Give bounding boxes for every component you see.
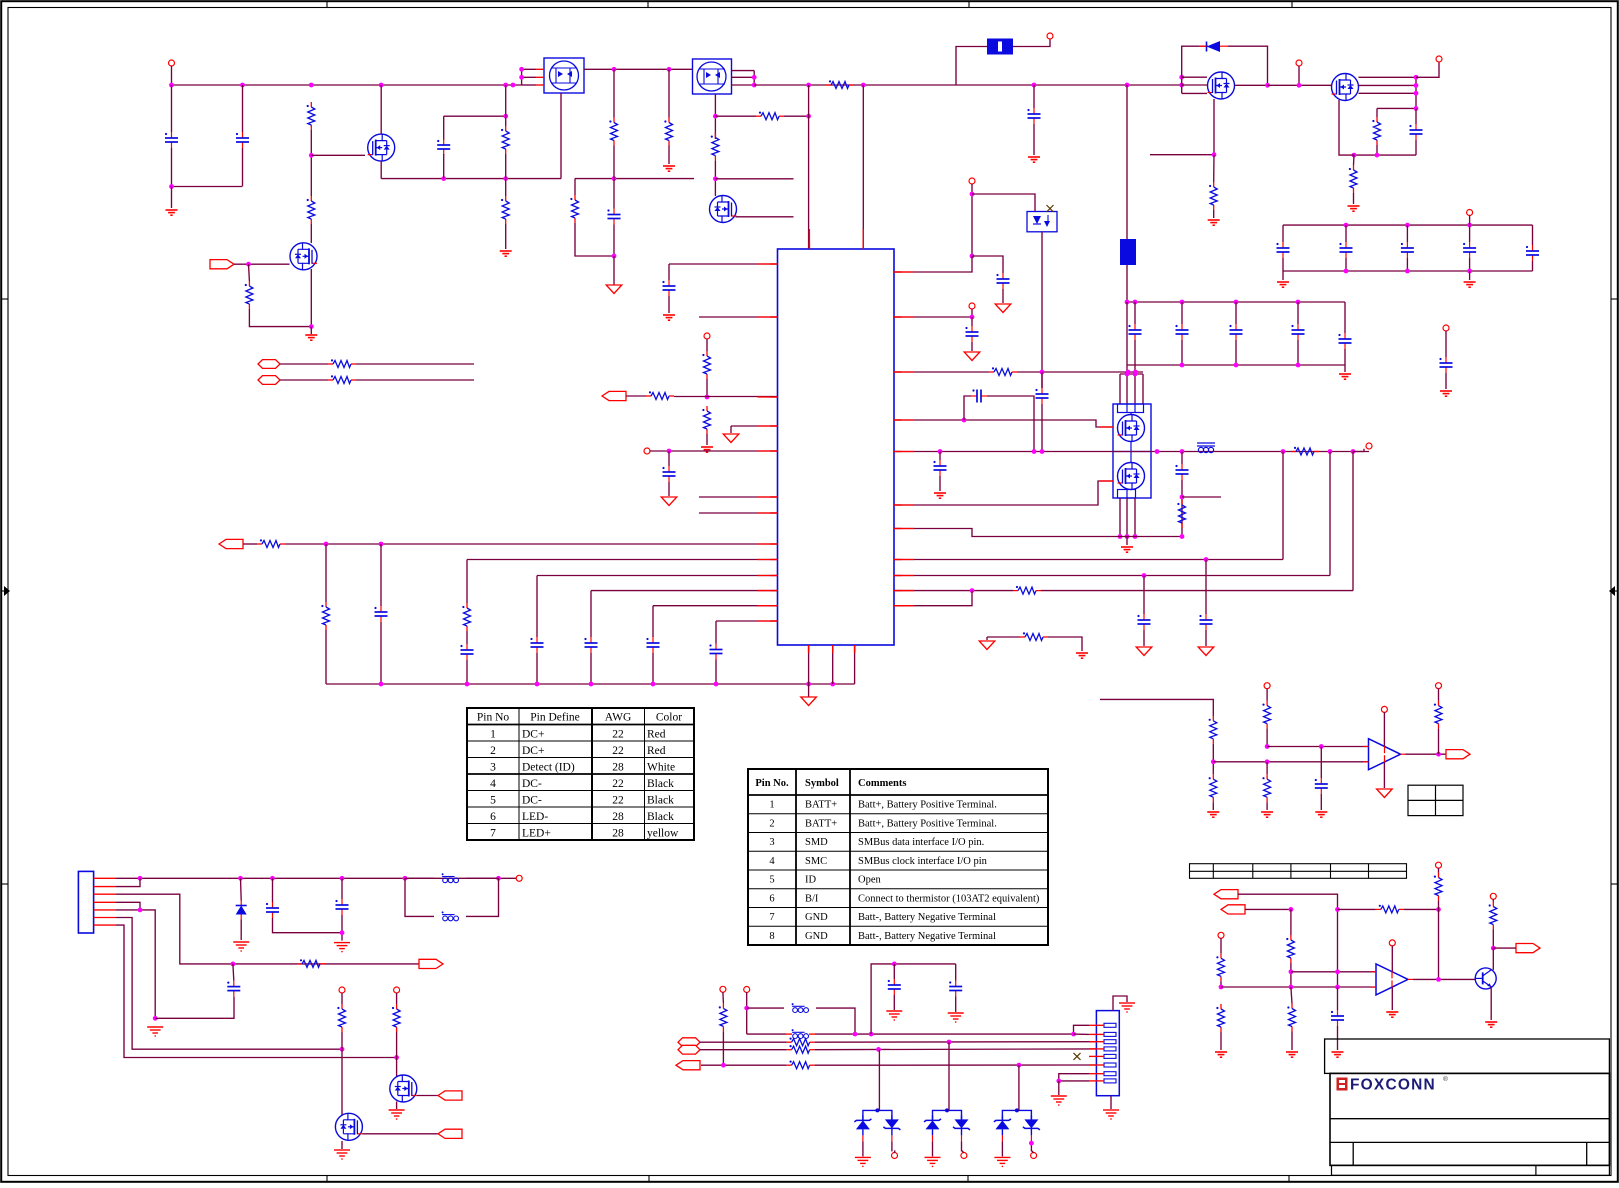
terminal PVCC2	[744, 987, 750, 993]
wire rail box2 to fuse node	[754, 84, 956, 86]
terminal D4T	[961, 1153, 967, 1159]
capacitor C5	[1027, 108, 1040, 124]
wire IC right pin stub	[894, 605, 902, 607]
wire cap C2 lead	[242, 85, 244, 132]
svg-text:ID: ID	[805, 875, 816, 886]
junction	[1414, 91, 1419, 96]
wire capbank2 lead 3	[1297, 302, 1299, 324]
wire box1 pin stub2	[536, 76, 544, 78]
capacitor C21	[1315, 778, 1328, 794]
CON2 pin bar	[1104, 1063, 1116, 1067]
junction	[1414, 106, 1419, 111]
junction	[138, 908, 143, 913]
wire pin4 jog	[116, 902, 140, 910]
wire comp1 feed	[1100, 699, 1213, 716]
junction	[379, 682, 384, 687]
ground	[1208, 220, 1220, 225]
capacitor C20	[1439, 357, 1452, 373]
junction	[1125, 534, 1130, 539]
wire C4 top	[613, 179, 615, 209]
capacitor C25	[227, 981, 240, 997]
resistor R35	[1434, 873, 1442, 901]
wire CON2 pin stub	[1089, 1048, 1104, 1050]
wire pin451L	[650, 450, 778, 452]
ground	[1386, 1012, 1398, 1017]
hex flag SMC	[678, 1038, 700, 1047]
wire M1 gate stub mid	[1182, 84, 1207, 86]
wire R29 bottom	[1212, 744, 1214, 774]
wire M1 gate stubs	[1182, 76, 1207, 78]
diode D2	[236, 901, 247, 920]
wire C17 lead	[1181, 452, 1183, 465]
terminal VREF2	[644, 448, 650, 454]
wire U6 out	[1406, 753, 1447, 755]
junction	[169, 83, 174, 88]
wire C21 gnd	[1320, 794, 1322, 810]
wire capbank1 right2	[1532, 261, 1534, 271]
wire rail to M1 area	[1127, 84, 1182, 86]
ground	[1277, 282, 1289, 287]
wire VBAT stub	[1469, 215, 1471, 225]
wire box2 right stub1	[732, 70, 755, 72]
junction	[1017, 1063, 1022, 1068]
wire R2 to Q2 drain	[310, 224, 312, 243]
wire IC right pin stub	[894, 271, 902, 273]
wire IC left pin stub	[770, 543, 778, 545]
wire capbank2 right2	[1344, 349, 1346, 365]
wire fb riser	[1438, 909, 1440, 978]
wire BATLRN line	[701, 1064, 787, 1066]
wire IC right pin stub red	[894, 605, 914, 607]
resistor R19	[702, 406, 710, 434]
bottom margin zone divider	[326, 1175, 328, 1181]
wire rail to jumper	[1126, 85, 1128, 239]
wire D3b lead	[891, 1141, 893, 1151]
wire R33 bottom	[1438, 729, 1440, 755]
ground	[1261, 812, 1273, 817]
wire CON1 pin stub	[94, 893, 116, 895]
no-connect X	[1047, 205, 1054, 212]
junction	[714, 682, 719, 687]
wire R14 gnd	[1353, 193, 1355, 204]
cable table	[467, 708, 694, 840]
junction	[970, 192, 975, 197]
svg-text:28: 28	[612, 811, 624, 823]
wire IC left pin stub red	[758, 575, 778, 577]
junction	[1265, 759, 1270, 764]
left margin zone divider	[2, 298, 8, 300]
junction	[1212, 152, 1217, 157]
terminal VDDSMB	[1443, 325, 1449, 331]
junction	[713, 176, 718, 181]
junction	[1040, 370, 1045, 375]
wire IC top pin stub red	[862, 229, 864, 249]
wire IC right pin stub	[894, 419, 902, 421]
junction	[869, 1032, 874, 1037]
wire x1127 down	[1126, 302, 1128, 374]
ground arrow	[979, 641, 995, 650]
wire L3 loop	[405, 878, 434, 916]
resistor R36	[1216, 953, 1224, 981]
wire pin559.5 L	[467, 559, 778, 561]
wire capbank2 lead 0	[1134, 302, 1136, 324]
wire D4a gnd	[932, 1141, 934, 1156]
junction rail-box1	[511, 83, 516, 88]
wire bracket	[1120, 373, 1143, 375]
wire CON2 pin stub	[1089, 1073, 1104, 1075]
wire IC left pin stub	[770, 605, 778, 607]
wire C3 bottom	[443, 154, 445, 179]
transistor Q2	[290, 243, 317, 270]
left margin zone divider	[2, 883, 8, 885]
resistor R23	[989, 367, 1017, 375]
wire cap C19 lead	[1205, 560, 1207, 615]
svg-text:5: 5	[490, 795, 496, 807]
wire LEDOUT wire	[1493, 947, 1516, 949]
capacitor CB11	[1339, 242, 1352, 258]
fuse F1	[987, 39, 1013, 55]
junction	[806, 114, 811, 119]
wire R18 left	[645, 396, 647, 398]
wire capbank2 gnd	[1344, 365, 1346, 372]
right margin zone divider	[1611, 590, 1617, 592]
transistor Q3	[710, 196, 737, 223]
resistor R33	[1434, 701, 1442, 729]
wire cap lead2 x653	[652, 653, 654, 684]
CON2 pin bar	[1104, 1072, 1116, 1076]
wire SMC line2	[815, 1041, 1097, 1044]
wire comp1 inm wire	[1213, 761, 1368, 763]
junction	[394, 1055, 399, 1060]
right border centre mark	[1609, 586, 1615, 596]
wire M2 right stub1	[1359, 76, 1417, 78]
diode D1	[1199, 41, 1228, 52]
junction	[1405, 269, 1410, 274]
wire M2 right stub3	[1359, 92, 1417, 94]
svg-text:Batt-, Battery Negative Termin: Batt-, Battery Negative Terminal	[858, 931, 996, 942]
terminal VREF3	[1218, 932, 1224, 938]
revision strip table	[1190, 864, 1407, 879]
junction	[861, 83, 866, 88]
wire C14 top	[1041, 372, 1043, 388]
junction	[1234, 363, 1239, 368]
wire C10 top	[380, 544, 382, 606]
junction	[1351, 449, 1356, 454]
wire C26 gnd	[893, 995, 895, 1010]
svg-text:DC-: DC-	[522, 795, 542, 807]
wire pin528 jog	[894, 529, 1113, 537]
wire pin372	[894, 371, 989, 373]
wire L4 right	[816, 1008, 855, 1034]
svg-text:1: 1	[769, 800, 774, 811]
junction	[465, 682, 470, 687]
wire capbank1 lead2 2	[1406, 258, 1408, 271]
svg-text:GND: GND	[805, 931, 828, 942]
wire comp link	[987, 396, 1034, 452]
wire M2 source	[1339, 100, 1354, 155]
wire DET node to cap	[972, 256, 1003, 273]
ground	[1028, 157, 1040, 162]
connector flag LEDB	[1221, 905, 1245, 914]
ground	[663, 166, 675, 171]
wire box2 riser	[753, 71, 755, 85]
svg-text:Color: Color	[656, 712, 682, 724]
wire box2 bottom pin	[714, 94, 716, 139]
wire C10 bottom	[380, 622, 382, 684]
wire IC left pin stub red	[758, 316, 778, 318]
terminal D3T	[892, 1153, 898, 1159]
top margin zone divider	[326, 2, 328, 8]
wire L2 right	[466, 877, 499, 879]
capacitor C22	[1331, 1010, 1344, 1026]
wire IC left pin stub	[770, 425, 778, 427]
wire capbank1 top	[1283, 224, 1533, 226]
wire D3a gnd	[862, 1141, 864, 1156]
wire pin426 gnd	[730, 426, 732, 433]
wire CON2 pin stub	[1089, 1024, 1104, 1026]
junction	[651, 682, 656, 687]
capacitor C6	[996, 273, 1009, 289]
ground earth	[1051, 1096, 1067, 1105]
svg-text:White: White	[647, 762, 675, 774]
wire fuse left	[956, 47, 987, 86]
wire box1 pin stub3	[536, 84, 544, 86]
svg-text:SMBus data interface I/O pin.: SMBus data interface I/O pin.	[858, 837, 984, 848]
protection device U4 diodes	[1033, 215, 1050, 227]
wire box1 left riser	[522, 69, 536, 85]
wire R34 right	[1404, 908, 1439, 910]
CON2 pin bar	[1104, 1079, 1116, 1083]
capacitor C9	[662, 466, 675, 482]
top margin zone divider	[647, 2, 649, 8]
coil L3	[442, 911, 459, 920]
junction	[309, 83, 314, 88]
op-amp U7	[1371, 964, 1413, 995]
terminal LED-	[339, 987, 345, 993]
wire capbank1 gnd1	[1282, 271, 1284, 280]
wire R21 bottom	[325, 630, 327, 684]
wire M1 gate stub low	[1182, 92, 1207, 94]
wire IC right pin stub red	[894, 316, 914, 318]
junction	[1328, 449, 1333, 454]
wire R40 top	[1492, 899, 1494, 902]
junction	[1289, 969, 1294, 974]
svg-text:7: 7	[490, 828, 496, 840]
wire BATT bus	[894, 451, 1369, 453]
wire fuse right	[1013, 39, 1050, 47]
junction	[340, 1047, 345, 1052]
title block bottom strip	[1332, 1165, 1610, 1175]
wire IC right pin stub	[894, 528, 902, 530]
resistor R15	[702, 351, 710, 379]
wire pin575.5 L	[537, 575, 778, 577]
wire VDD line cont	[815, 1033, 1074, 1035]
hex flag NTC1	[258, 360, 280, 369]
wire IC left pin stub	[770, 316, 778, 318]
wire C9 lead	[668, 451, 670, 466]
wire R43 bottom	[396, 1032, 398, 1058]
resistor R1	[307, 102, 315, 130]
wire gnd spur	[986, 637, 988, 640]
wire C8 gnd	[668, 296, 670, 313]
capacitor C2	[236, 132, 249, 148]
TVS diode D3a	[854, 1115, 871, 1141]
wire R10 right	[784, 115, 809, 117]
wire R5 top	[248, 264, 251, 281]
svg-text:SMD: SMD	[805, 837, 828, 848]
wire L4 left	[747, 1007, 784, 1009]
junction	[503, 114, 508, 119]
wire capbank2 lead 2	[1235, 302, 1237, 324]
resistor R20	[257, 539, 285, 547]
wire pin590R	[894, 590, 1013, 592]
wire Q4 collector	[1492, 948, 1494, 970]
wire IC left pin stub	[770, 620, 778, 622]
resistor R28	[1020, 632, 1048, 640]
junction	[519, 67, 524, 72]
ground earth	[886, 1011, 902, 1020]
dual MOSFET U5 pin strip	[1118, 404, 1144, 498]
wire main input rail	[172, 84, 522, 86]
svg-text:3: 3	[769, 837, 774, 848]
wire cap C5 lead	[1033, 85, 1035, 108]
junction	[947, 1040, 952, 1045]
resistor R11	[711, 133, 719, 161]
wire SMD line	[700, 1049, 787, 1051]
wire C25 top	[232, 964, 235, 981]
wire capbank2 lead2 1	[1181, 340, 1183, 365]
wire box1 bottom pin	[560, 93, 562, 179]
ground arrow	[801, 697, 817, 706]
right margin zone divider	[1611, 883, 1617, 885]
wire U5 gnd bus	[1113, 536, 1182, 538]
transistor M2	[1332, 74, 1359, 101]
capacitor C15	[971, 389, 987, 402]
wire rail jog into box1	[522, 84, 536, 86]
wire pin317L	[699, 316, 778, 318]
capacitor C7	[1409, 124, 1422, 140]
resistor R9	[826, 80, 854, 88]
wire R28 right	[1048, 637, 1082, 651]
wire to gnd arrow	[613, 256, 615, 285]
wire D4 tap	[948, 1042, 950, 1110]
wire R6 top	[613, 69, 615, 117]
junction	[1142, 573, 1147, 578]
wire pin272 jog	[894, 256, 972, 272]
wire bus term	[1353, 449, 1364, 452]
junction	[1155, 449, 1160, 454]
resistor R25	[1177, 500, 1185, 528]
wire box bottom to bus	[1041, 232, 1043, 388]
battery connector CON1	[78, 871, 93, 933]
junction	[1180, 449, 1185, 454]
junction	[1414, 83, 1419, 88]
wire M1 source	[1213, 99, 1215, 155]
junction	[1289, 985, 1294, 990]
wire Q1 source	[380, 161, 382, 179]
junction	[1296, 363, 1301, 368]
dual MOSFET U2 body	[550, 61, 579, 90]
wire pin317R	[894, 316, 972, 318]
junction	[169, 184, 174, 189]
wire D4b lead	[961, 1141, 963, 1151]
wire IC left pin stub red	[758, 450, 778, 452]
inductor L1	[1197, 443, 1215, 453]
D4 junction	[945, 1108, 949, 1112]
wire L3 right	[466, 878, 499, 916]
wire D3 bracket	[863, 1110, 892, 1120]
wire C21 top	[1320, 747, 1322, 779]
svg-text:2: 2	[490, 745, 496, 757]
svg-text:LED-: LED-	[522, 811, 548, 823]
capacitor C11	[460, 644, 473, 660]
wire CON2 pin stub	[1089, 1055, 1104, 1057]
wire bracket v3	[1134, 365, 1136, 404]
wire IC right pin stub red	[894, 271, 914, 273]
coil L5	[792, 1029, 809, 1038]
wire CON1 pin stub	[94, 924, 116, 926]
svg-text:®: ®	[1443, 1075, 1448, 1083]
junction	[379, 83, 384, 88]
junction	[1467, 269, 1472, 274]
wire cap lead2 x591	[590, 653, 592, 684]
wire U7 out	[1413, 978, 1475, 980]
junction	[496, 876, 501, 881]
junction	[1319, 744, 1324, 749]
ground arrow	[606, 285, 622, 294]
junction	[1179, 75, 1184, 80]
svg-text:yellow: yellow	[647, 828, 679, 840]
bottom margin zone divider	[1288, 1175, 1290, 1181]
svg-text:Black: Black	[647, 811, 674, 823]
wire R14 top	[1353, 155, 1356, 165]
junction	[1126, 370, 1131, 375]
CON2 pin bar	[1104, 1032, 1116, 1036]
junction	[519, 75, 524, 80]
dual MOSFET U5 internal riser	[1130, 413, 1132, 490]
wire pin544	[285, 543, 778, 545]
svg-text:LED+: LED+	[522, 828, 551, 840]
junction	[1297, 83, 1302, 88]
wire C6 gnd	[1002, 289, 1004, 303]
wire Q6 gate	[417, 1095, 438, 1097]
svg-text:Pin No: Pin No	[477, 712, 510, 724]
connector flag LEDOUT	[1516, 944, 1540, 953]
wire sense riser1	[1282, 452, 1284, 560]
svg-text:DC-: DC-	[522, 778, 542, 790]
svg-text:22: 22	[612, 795, 624, 807]
svg-text:6: 6	[769, 893, 774, 904]
junction	[441, 176, 446, 181]
wire IC bottom pin stub	[832, 645, 834, 652]
wire C12 bottom	[715, 660, 717, 685]
resistor R43	[392, 1004, 400, 1032]
junction	[752, 83, 757, 88]
wire gate drive rail	[575, 178, 694, 180]
wire bracket v1	[1119, 374, 1121, 404]
capacitor C19	[1199, 614, 1212, 630]
wire U5 bottom v1	[1119, 498, 1121, 537]
wire IC bottom pin stub	[854, 645, 856, 652]
battery pack connector CON2	[1096, 1011, 1119, 1096]
junction	[246, 262, 251, 267]
wire capbank2 lead2 2	[1235, 340, 1237, 365]
ground earth	[1119, 1003, 1135, 1012]
wire C20 lead	[1445, 331, 1447, 357]
wire IC right pin stub red	[894, 575, 914, 577]
wire pin3 route	[116, 894, 420, 964]
wire CON2 pin2	[1074, 1033, 1090, 1035]
